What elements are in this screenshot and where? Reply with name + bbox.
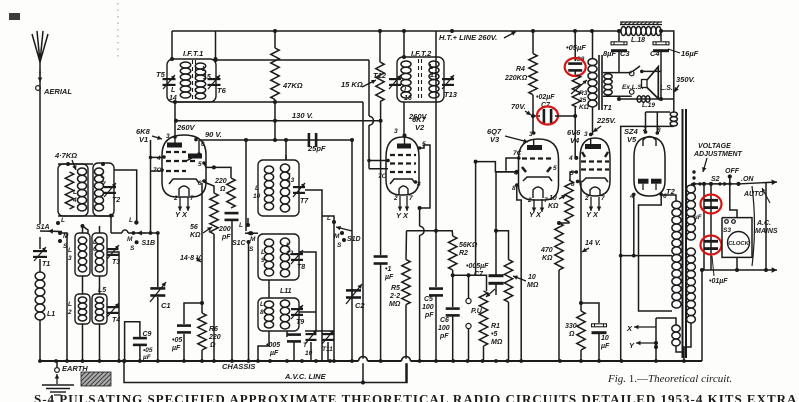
label C6 value [438,325,450,332]
svg-text:L: L [68,301,72,308]
V1 pin 7C [153,167,162,174]
label V3 name [490,135,500,144]
label 10uF [601,335,609,342]
svg-text:Ω: Ω [568,331,575,338]
T2 core [683,109,687,358]
wire aerial box bottoms [58,215,114,217]
V4 grid dashes [581,162,609,170]
switch S1D arm [336,226,352,231]
svg-text:S-4 PULSATING SPECIFIED APPROX: S-4 PULSATING SPECIFIED APPROXIMATE THEO… [34,392,799,402]
wire V3 cathode down [517,185,521,361]
label R5 unit [389,301,401,308]
wire grid stopper line [496,231,509,260]
wire 10uF bottom [598,334,600,362]
wire V2 pin5 loop [420,145,431,208]
label L2 number [67,309,72,316]
wire 330 bottom [580,350,582,361]
label T13 [444,90,458,99]
wire S1A M to coils [60,233,67,238]
svg-text:T1: T1 [603,103,612,112]
svg-text:R1: R1 [491,323,500,330]
label M S1B [127,236,133,243]
label T6 [217,86,227,95]
wire T11 to chassis [327,342,329,361]
wire y140 line down to S1C rail [245,140,247,231]
wire x352 long vertical [351,140,353,361]
coil L6 [95,237,103,272]
svg-text:V1: V1 [139,135,148,144]
junction IFT2 top [402,55,406,59]
label C8 [576,56,585,63]
resistor R1 volume 0.5M [479,291,487,346]
coil L10 [264,166,273,210]
label L14 number [169,95,177,102]
label 56K unit [190,232,201,239]
svg-text:220: 220 [208,334,221,341]
capacitor 0.01uF mains lower [704,240,718,250]
junction R3 C7 line [573,114,577,118]
label R6 [209,326,218,333]
label valve V4 type 6V6 [567,128,581,137]
svg-text:Y X: Y X [396,211,409,220]
svg-text:L: L [202,66,206,73]
wire HT bus to IFT1 left [171,31,173,59]
wire L18 right to rail [661,31,674,112]
capacitor 0.1uF mains upper [704,199,718,209]
svg-text:C1: C1 [161,301,171,310]
wire to C1 [157,233,159,287]
svg-text:100: 100 [422,304,434,311]
svg-text:260V: 260V [176,123,196,132]
wire bypass cap to chassis [183,334,185,361]
coil box L7 T2 [93,163,114,216]
label C6 unit [439,333,449,340]
V3 grid dashes [522,157,552,159]
V1 pin junction dots [149,135,206,183]
label C4 [650,49,660,58]
svg-text:L: L [101,173,105,180]
V3 diode plates [522,167,551,172]
svg-text:5: 5 [198,161,202,168]
junction x246 y140 [244,138,248,142]
wire L6 L5 link [99,276,101,294]
arrow X heater [634,325,656,330]
wire x475 AVC vertical [475,162,477,276]
wire T10 T11 top [305,330,334,332]
S3 contact b [732,220,736,224]
svg-text:pF: pF [221,234,231,241]
wire L3 top to S1B M [83,226,89,234]
trimmer capacitor T5 [163,75,176,89]
T2 secondary winding upper [687,185,696,240]
red ring around C7 [537,107,558,125]
svg-text:C9: C9 [143,331,152,338]
red ring mains cap lower [701,236,722,255]
label T1 output transformer [603,103,612,112]
label OFF [725,168,740,175]
svg-text:T: T [303,342,308,349]
valve V2 6K7 envelope [386,137,419,195]
svg-text:4: 4 [72,197,77,204]
wire V5 pin6 down [639,194,673,311]
V1 anode plate [167,137,182,148]
wire V1 cathode down x202 [201,183,203,313]
svg-text:Ω: Ω [209,342,216,349]
label V4 name [570,136,580,145]
V4 pin 2 [584,195,589,202]
caption Fig. 1 Theoretical circuit [607,373,732,385]
junction box top S1B [109,214,113,218]
label 220 ohm [214,178,227,185]
V1 grid dashes [166,152,196,171]
label 260V at V2 [408,112,428,121]
pointer V1 label [152,136,162,140]
chassis bus junction dots [38,359,686,363]
label L16 number [404,95,412,102]
label C9 value [143,347,153,354]
wire 70V to C7cap [533,115,540,117]
wire speaker box bottom [603,95,632,97]
label V4 Y X [586,210,599,219]
label C7 coupling [474,271,484,278]
svg-text:16µF: 16µF [681,49,699,58]
wire L10 box top to y140 [285,155,287,160]
label L11 [280,288,292,295]
label 0.005uF [266,342,280,349]
svg-text:225V.: 225V. [596,116,616,125]
junction L10 top [284,138,288,142]
label Ex.L.S. [622,84,644,91]
transformer IFT2 box [397,57,444,102]
wire HT right segment to L18 [613,30,621,32]
wire 10M bottom [508,302,510,361]
label ADJUSTMENT [693,151,743,158]
ExLS contact bottom [629,90,634,95]
wire anode feed horizontal [646,111,671,113]
V3 pin 7C [513,150,522,157]
coil L4 [78,168,87,211]
label L at S1D [327,215,331,222]
label 15K [341,80,363,89]
wire C7cap to R3 node [555,115,575,117]
label L4 number [72,197,77,204]
label ON [741,176,754,183]
svg-text:S1C: S1C [232,240,247,247]
wire HT to C8 [574,31,576,61]
wire x380 vertical 15K down [380,102,382,255]
red ring mains cap upper [701,195,722,214]
label 470K [540,247,553,254]
coil L3 [78,237,86,272]
label C3 [620,49,630,58]
svg-text:ADJUSTMENT: ADJUSTMENT [693,151,743,158]
switch S1C arm [245,231,258,236]
junction V2 anode pin3 [403,134,407,138]
T2 tap dots [692,170,731,185]
variable capacitor C1 [150,282,166,302]
S1A contact M [58,231,62,235]
transformer T1 secondary [604,74,612,95]
label AERIAL [43,87,72,96]
pointer 10K [559,195,566,199]
label T11 [322,346,333,353]
T2 heater winding [672,325,680,346]
label Y heater [629,341,635,350]
resistor R4 220K [529,54,537,95]
resistor 47K [271,48,279,100]
label L7 [101,173,105,180]
IFT1 secondary winding L15 [195,63,205,99]
wire V5 pin8 up [656,112,658,133]
svg-text:X: X [626,324,633,333]
wire T2 heater winding wires [656,318,676,325]
wire ExLS top contact to C4 [642,70,661,72]
svg-text:14 V.: 14 V. [585,240,601,247]
V1 cathode [169,179,199,184]
svg-text:350V.: 350V. [676,75,695,84]
svg-text:•02µF: •02µF [536,94,555,101]
V2 pin 7C [378,173,387,180]
wire aerial box tops [58,163,93,165]
wire 200pF down [231,221,233,361]
svg-text:•5: •5 [491,331,497,338]
IFT1 primary winding L14 [180,62,190,98]
label P.U. [471,308,484,315]
svg-text:V5: V5 [627,135,637,144]
V1 pin 5 [198,161,202,168]
junction clock bottom [735,268,739,272]
svg-text:µF: µF [142,354,152,361]
wire T1 to L1 [39,259,41,272]
svg-text:L: L [129,217,133,224]
wire L11 bottom to cap [286,331,288,337]
wire T3 T4 rail [107,252,119,361]
label 0.005uF C7 [466,263,489,270]
svg-text:µF: µF [600,343,610,350]
IFT2 secondary winding L17 [429,61,439,98]
label L8 number [260,309,264,316]
label T10 a [303,342,308,349]
S1B contact S [135,240,139,244]
junction x702 bottom line [700,268,704,272]
svg-text:3: 3 [166,133,170,140]
label C9 unit [142,354,152,361]
label S1B [142,240,156,247]
wire 90V line with 25pF [199,139,354,141]
coil L8 [264,301,273,328]
R1 wiper arrow [486,289,495,297]
wire T7 right [305,190,322,361]
wire HT output line y255 [621,255,672,257]
wire 130V line [176,120,380,122]
svg-text:6: 6 [201,141,205,148]
svg-text:L: L [239,222,243,229]
svg-text:70V.: 70V. [511,102,526,111]
coil box L9 L12 [258,234,299,280]
V2 heater [399,186,408,195]
label 0.1uF [385,266,391,273]
pointer 0.01uF [712,256,714,276]
pointer to HT line [504,32,516,39]
wire C9 feed [125,322,140,361]
ExLS switch blade [633,66,641,72]
label R1 unit [491,339,503,346]
label C7 0.02uF name [541,102,551,109]
label H.T.+ LINE 260V [439,33,497,42]
label valve V3 type 6Q7 [487,127,502,136]
svg-text:T6: T6 [217,86,227,95]
svg-text:220: 220 [214,178,227,185]
wire bypass 10uF top [581,303,599,323]
wire x363 long vertical [362,102,364,383]
wire clock bottom drop [736,257,738,270]
svg-text:P.U.: P.U. [471,308,484,315]
svg-text:7: 7 [409,195,413,202]
trimmer capacitor T11 [322,330,334,344]
IFT1 core [193,60,196,101]
pointer 225V [593,126,601,132]
wire C7 bottom arrow to R1 [495,284,497,295]
svg-text:R6: R6 [209,326,218,333]
label 470K unit [542,255,553,262]
S1B junction dots [132,231,160,235]
label 56K R2 [459,242,478,249]
wire T2 sec bottom to chassis [684,323,691,361]
label T8 [297,264,305,271]
terminal L at S1C [246,223,250,227]
label S2 [711,176,720,183]
terminal P.U. bottom [466,323,471,328]
svg-text:L: L [93,240,97,246]
label 4.7K [54,151,77,160]
label I.F.T.1 [183,49,203,58]
svg-text:T5: T5 [156,70,166,79]
label C1 [161,301,171,310]
wire C4 drop [660,31,662,41]
junction 10K 470K [557,221,561,225]
arrow AC mains bottom [702,267,777,272]
wire volume pickup line [453,275,487,291]
junction x704 top [702,182,706,186]
label T9 [296,319,304,326]
S3 contact a [725,220,729,224]
V3 heater [533,187,543,198]
label L10 number [253,193,261,200]
label 225V [596,116,616,125]
wire box top to S1B line [110,216,112,233]
label L15 [202,66,206,73]
svg-text:2: 2 [173,195,178,202]
V4 pin 8 [571,181,575,188]
capacitor C8 0.05uF [568,62,582,71]
label R3 [579,90,588,97]
label X heater [626,324,633,333]
V3 pin 2 [527,197,532,204]
contact ON [736,182,740,186]
S1A contact S [58,239,62,243]
capacitor C3 8uF [611,42,627,52]
svg-text:2: 2 [67,309,72,316]
svg-text:R4: R4 [516,66,525,73]
label L2 [68,301,72,308]
wire x248 lower [248,244,250,361]
resistor R5 2.2M [402,260,410,305]
svg-text:R2: R2 [459,250,468,257]
V2 pin 3 [394,128,398,135]
V2 cathode [390,179,415,184]
resistor 220ohm V1 oscillator [227,178,235,208]
svg-text:pF: pF [439,333,449,340]
wire R4 bottom to V3 anode [532,95,535,133]
resistor 470K [555,223,563,270]
trimmer capacitor T1 aerial [33,247,47,261]
label S1C [232,240,247,247]
wire R1 bottom [483,346,485,361]
label 10uF unit [600,343,610,350]
label 0.005uF unit [269,350,279,357]
resistor 330 ohm [577,311,585,350]
V4 pin 4 [568,155,573,162]
label S1D [347,236,361,243]
label 16uF [681,49,699,58]
wire 330 top [580,303,582,311]
coil box L3 [75,233,90,276]
svg-text:200: 200 [218,226,231,233]
wire L10 stub [285,140,287,160]
V1 pin 2 [173,195,178,202]
T2 secondary winding lower [687,248,696,323]
V2 pin 2 [393,195,398,202]
label AUTO [743,191,764,198]
svg-text:KΩ: KΩ [542,255,553,262]
junction dots filament line [619,254,636,258]
svg-text:•05µF: •05µF [566,43,586,52]
svg-text:56: 56 [190,224,198,231]
svg-text:L: L [61,217,65,224]
svg-text:•005: •005 [266,342,280,349]
label L17 [429,64,433,71]
wire 10K bottom [559,222,569,223]
resistor R2 56K [449,236,457,270]
svg-text:470: 470 [540,247,553,254]
V5 pin dots [632,130,663,196]
label L10 [255,185,259,192]
label 350V [676,75,695,84]
wire x496 up to V3 diode [496,172,517,231]
label L at S1A [61,217,65,224]
wire V1 pin7C stub [151,170,164,172]
label S S1A [63,243,68,250]
wire V3 grid cap [506,158,519,171]
wire 0.1uF down [380,265,382,362]
label T4 [112,317,120,324]
label S1A [36,224,50,231]
label R2 [459,250,468,257]
wire PU terminal top [468,275,470,298]
V4 screen marks [582,152,608,157]
wire heater winding bottom [676,346,684,352]
printing artifact blob top-left [9,13,20,20]
label C5 [424,296,433,303]
svg-text:25: 25 [578,97,587,104]
transformer IFT1 box [167,59,216,102]
label uF mains upper [693,214,703,221]
trimmer capacitor T12 [389,75,401,89]
resistor 4.7K damping [65,172,73,209]
junction mains bottom right [764,268,768,272]
label 200pF [218,226,231,233]
capacitor 0.05uF cathode bypass [177,324,191,333]
